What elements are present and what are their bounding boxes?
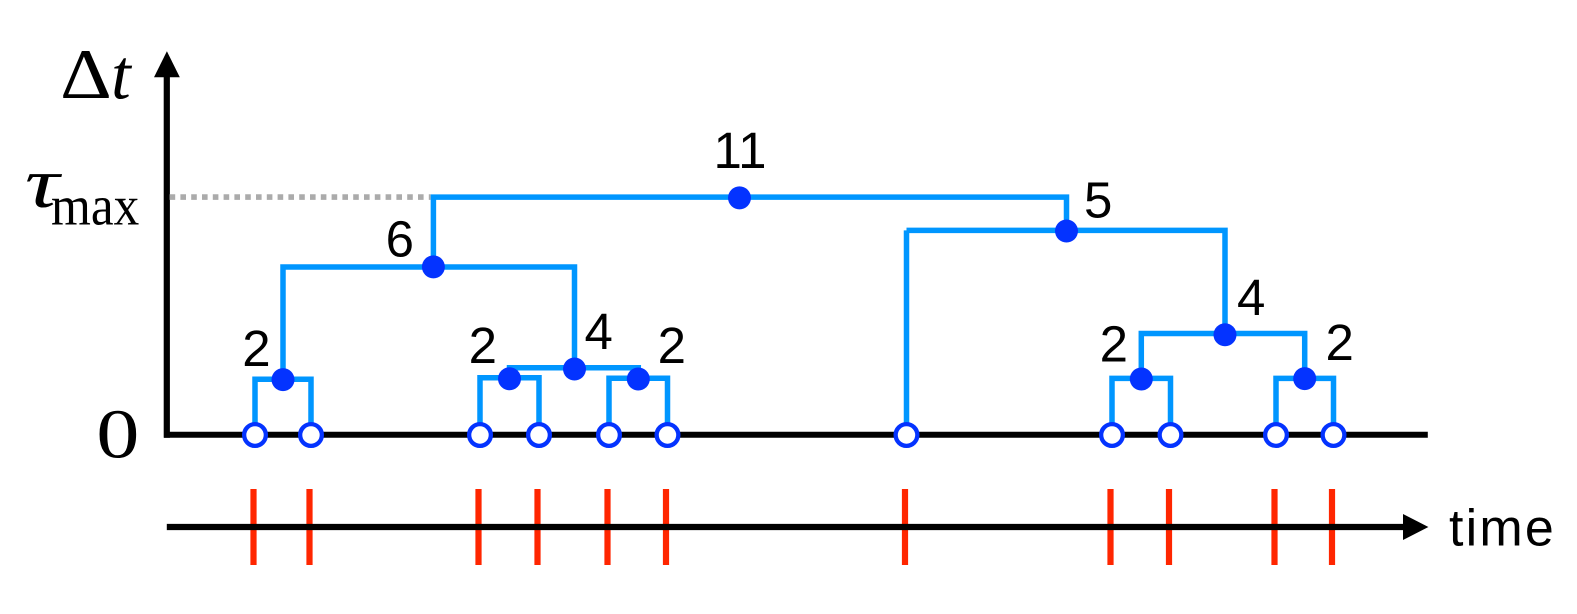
leaf 6: [657, 424, 679, 446]
node 2d dot: [1130, 368, 1153, 391]
wire: cluster 4R bar joining 2d and 2e: [1141, 334, 1304, 379]
tick t7: [902, 489, 908, 565]
svg-text:2: 2: [658, 317, 686, 374]
y-axis arrowhead: [154, 51, 180, 77]
svg-text:max: max: [51, 174, 139, 237]
leaf 7: [896, 424, 918, 446]
svg-text:2: 2: [1100, 315, 1128, 372]
svg-text:time: time: [1449, 500, 1556, 558]
x-axis (baseline 0): [164, 432, 1428, 438]
wire: cluster 5 bar joining leaf7 and 4R: [907, 230, 1226, 333]
tick t10: [1271, 489, 1277, 565]
svg-text:4: 4: [1237, 269, 1265, 326]
svg-text:t: t: [111, 37, 132, 115]
node 2b dot: [498, 367, 521, 390]
wire: cluster 2d bracket (leaves 8-9): [1112, 378, 1171, 435]
wire: leaf 7 riser: [904, 230, 910, 435]
leaf 8: [1101, 424, 1123, 446]
svg-text:Δ: Δ: [60, 36, 112, 113]
svg-text:5: 5: [1084, 172, 1112, 229]
tick t9: [1166, 489, 1172, 565]
wire: cluster 2c bracket (leaves 5-6): [609, 378, 668, 435]
node 2c dot: [627, 368, 650, 391]
tick t8: [1107, 489, 1113, 565]
dendrogram branches: [255, 197, 1334, 435]
node 5 dot: [1055, 220, 1078, 243]
leaf 5: [598, 424, 620, 446]
tick t1: [250, 489, 256, 565]
svg-text:11: 11: [714, 122, 767, 179]
node 4R dot: [1214, 323, 1237, 346]
time axis arrowhead: [1403, 514, 1428, 540]
wire: cluster 2e bracket (leaves 10-11): [1276, 378, 1334, 435]
svg-text:4: 4: [585, 303, 613, 360]
leaf 9: [1160, 424, 1182, 446]
leaf 4: [528, 424, 550, 446]
node 2e dot: [1293, 367, 1316, 390]
tick t4: [534, 489, 540, 565]
leaf 11: [1323, 424, 1345, 446]
wire: cluster 11 root bar joining 6 and 5: [433, 197, 1066, 267]
y-axis shaft: [164, 74, 170, 438]
svg-text:2: 2: [1326, 314, 1354, 371]
svg-text:2: 2: [242, 320, 270, 377]
tick t6: [663, 489, 669, 565]
leaf 3: [469, 424, 491, 446]
leaf 10: [1265, 424, 1287, 446]
svg-text:0: 0: [96, 396, 139, 473]
svg-text:2: 2: [469, 317, 497, 374]
red event ticks on time axis: [254, 489, 1333, 565]
leaf event circles on baseline: [244, 424, 1344, 446]
tick t11: [1329, 489, 1335, 565]
wire: cluster 4L bar joining 2b and 2c: [510, 368, 639, 379]
leaf 1: [244, 424, 266, 446]
node 6 dot: [422, 255, 445, 278]
tau_max dotted gridline: [170, 194, 431, 200]
wire: cluster 2b bracket (leaves 3-4): [480, 378, 539, 435]
wire: cluster 6 bar joining 2a and 4L: [283, 267, 575, 379]
wire: cluster 2a bracket (leaves 1-2): [255, 379, 311, 435]
node 2a dot: [272, 368, 295, 391]
tick t5: [604, 489, 610, 565]
time axis shaft: [167, 524, 1404, 530]
tick t3: [475, 489, 481, 565]
merge node dots: [272, 186, 1317, 391]
tick t2: [306, 489, 312, 565]
leaf 2: [300, 424, 322, 446]
node 4L dot: [563, 358, 586, 381]
svg-text:6: 6: [386, 211, 414, 268]
node 11 dot: [728, 186, 751, 209]
